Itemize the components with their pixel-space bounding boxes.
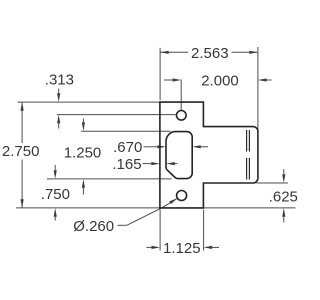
svg-text:2.750: 2.750 xyxy=(2,143,40,160)
svg-text:.165: .165 xyxy=(112,156,141,173)
svg-text:.750: .750 xyxy=(41,186,70,203)
svg-text:1.125: 1.125 xyxy=(163,240,201,257)
svg-text:2.000: 2.000 xyxy=(201,72,239,89)
svg-text:1.250: 1.250 xyxy=(64,145,102,162)
svg-text:.625: .625 xyxy=(269,189,298,206)
svg-text:.313: .313 xyxy=(45,71,74,88)
svg-text:.670: .670 xyxy=(113,139,142,156)
svg-text:2.563: 2.563 xyxy=(191,45,229,62)
svg-text:Ø.260: Ø.260 xyxy=(73,218,114,235)
